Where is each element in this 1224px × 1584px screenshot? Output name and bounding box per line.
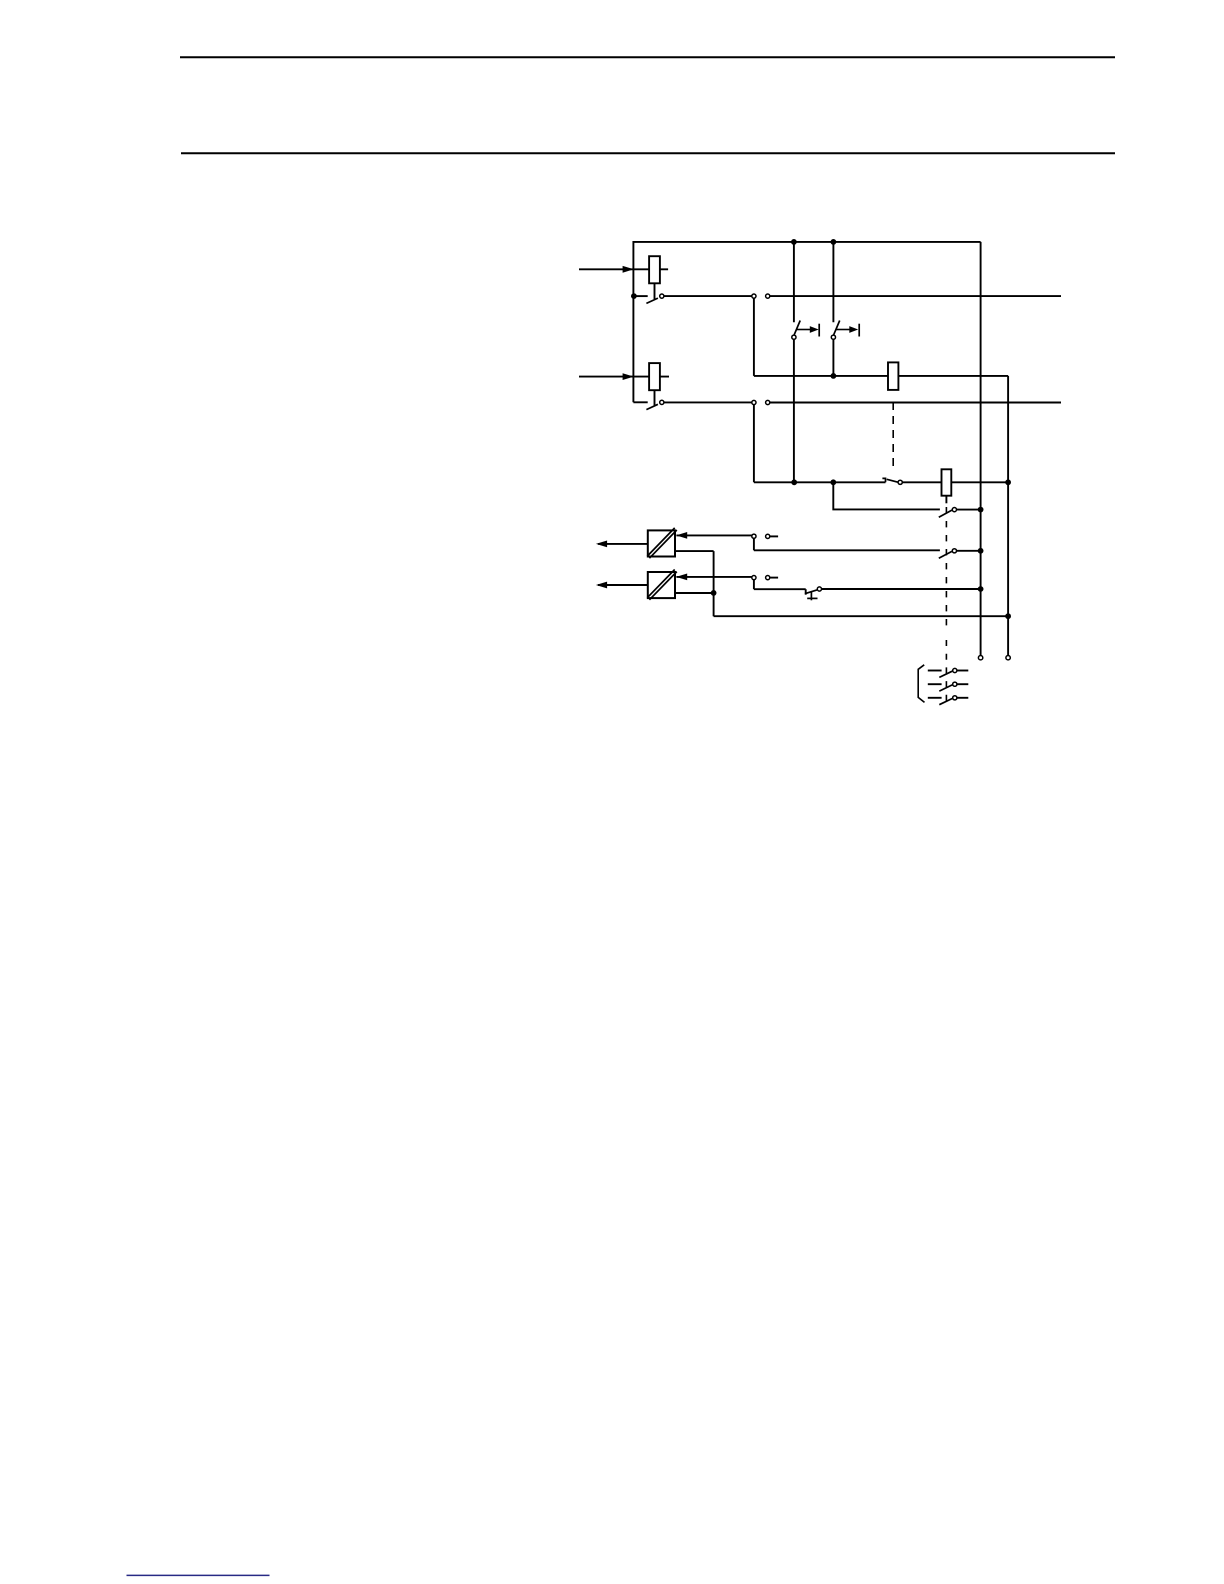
contact K4.2 <box>939 549 981 559</box>
wire: top supply line <box>633 241 980 243</box>
node: junction dot K4.2 / rail A <box>978 548 984 554</box>
terminal circle U1 B <box>766 534 770 538</box>
stub after U1 B <box>770 535 778 537</box>
K1 plunger link <box>654 283 656 299</box>
header rule top <box>180 56 1115 58</box>
converter U1 box <box>648 530 675 556</box>
terminal circle rail B end <box>1006 656 1010 660</box>
K4 dashed actuating link upper <box>945 507 947 628</box>
wire: row1 right segment <box>770 295 1061 297</box>
wire: U2 A down to pushbutton feed <box>753 580 755 589</box>
node: junction dot top line / S1 <box>791 239 797 245</box>
wire: pushbutton to rail A <box>822 588 981 590</box>
node: junction dot bottom link / rail B <box>1005 613 1011 619</box>
U1 diagonal stroke 2 <box>649 530 676 558</box>
wire: U1 A down to contact K4.2 feed <box>753 539 755 551</box>
converter U2 box <box>648 572 675 598</box>
U2 diagonal stroke 2 <box>649 572 676 600</box>
node: junction dot row3 / K4.1 branch <box>830 479 836 485</box>
wire: row3 right segment <box>902 481 1008 483</box>
U2 diagonal stroke 1 <box>647 570 674 598</box>
node: junction dot K4.1 / rail A <box>978 507 984 513</box>
contact K1.1 <box>634 294 664 303</box>
terminal circle rail A end <box>978 656 982 660</box>
node: junction dot row3 / S1 branch <box>791 479 797 485</box>
footer link rule <box>127 1574 270 1576</box>
wire: S1 to row3 <box>793 340 795 483</box>
contact K3.1 <box>882 478 902 484</box>
wire: row1 left segment <box>664 295 752 297</box>
relay coil K3 <box>888 362 898 390</box>
wire: U2 right lead <box>675 592 714 594</box>
wire: U1 right lead <box>675 550 714 552</box>
wire: left vertical rail <box>632 241 634 402</box>
wire: row2 left segment <box>664 401 752 403</box>
pushbutton S3 <box>805 587 822 600</box>
K3 dashed actuating link <box>892 402 894 470</box>
U1 output arrow <box>596 541 648 548</box>
terminal circle row2 A <box>752 400 756 404</box>
wire: feed to contact K4.2 <box>754 549 940 551</box>
switch Q1 pole 1 <box>928 668 969 677</box>
K4 plunger link <box>945 496 947 504</box>
K4 dashed actuating link lower / Q1 linkage <box>945 640 947 701</box>
wire: row1 A down to mid line <box>753 298 755 376</box>
wire: mid line <box>754 375 1008 377</box>
U2 output arrow <box>596 582 648 589</box>
wire: vertical link U1/U2 outputs <box>713 551 715 616</box>
contact K4.1 <box>939 508 981 518</box>
wire: pushbutton feed <box>754 588 806 590</box>
wire: dot row3 down and right to contact K4.1 <box>833 482 940 509</box>
header rule bottom <box>181 152 1115 154</box>
switch Q1 pole 2 <box>928 682 969 691</box>
wire: rail A <box>980 242 982 656</box>
terminal circle U2 B <box>766 576 770 580</box>
node: junction dot pushbutton / rail A <box>978 586 984 592</box>
node: junction dot left rail / row1 <box>631 293 637 299</box>
K2 plunger link <box>654 390 656 405</box>
wire: S2 to mid line <box>832 340 834 376</box>
terminal circle row1 B <box>766 294 770 298</box>
node: junction dot row3 / rail B <box>1005 479 1011 485</box>
limit switch S1 <box>792 242 819 339</box>
node: junction dot top line / S2 <box>831 239 837 245</box>
relay coil K2 input arrow <box>579 373 669 380</box>
wire: row3 left segment <box>754 481 886 483</box>
relay coil K1 <box>649 256 660 283</box>
terminal circle U1 A <box>752 534 756 538</box>
wire: row2 right segment <box>770 402 1061 404</box>
wire: rail B <box>1007 376 1009 656</box>
terminal circle row2 B <box>766 400 770 404</box>
U1 diagonal stroke 1 <box>647 528 674 556</box>
relay coil K1 input arrow <box>579 266 668 273</box>
stub after U2 B <box>770 577 778 579</box>
wire: bottom link to rail B <box>714 615 1009 617</box>
node: junction dot mid line / S2 branch <box>831 373 837 379</box>
node: junction dot U2 output <box>711 590 717 596</box>
terminal circle U2 A <box>752 576 756 580</box>
switch Q1 mechanical bracket <box>918 665 924 703</box>
relay coil K2 <box>649 363 660 390</box>
limit switch S2 <box>831 242 859 339</box>
converter U1 input wire with arrow <box>676 532 752 539</box>
contact K2.1 <box>633 400 664 409</box>
wire: row2 A down to row3 <box>753 405 755 483</box>
converter U2 input wire with arrow <box>676 574 752 581</box>
relay coil K4 <box>942 469 952 495</box>
switch Q1 pole 3 <box>928 696 969 705</box>
terminal circle row1 A <box>752 294 756 298</box>
